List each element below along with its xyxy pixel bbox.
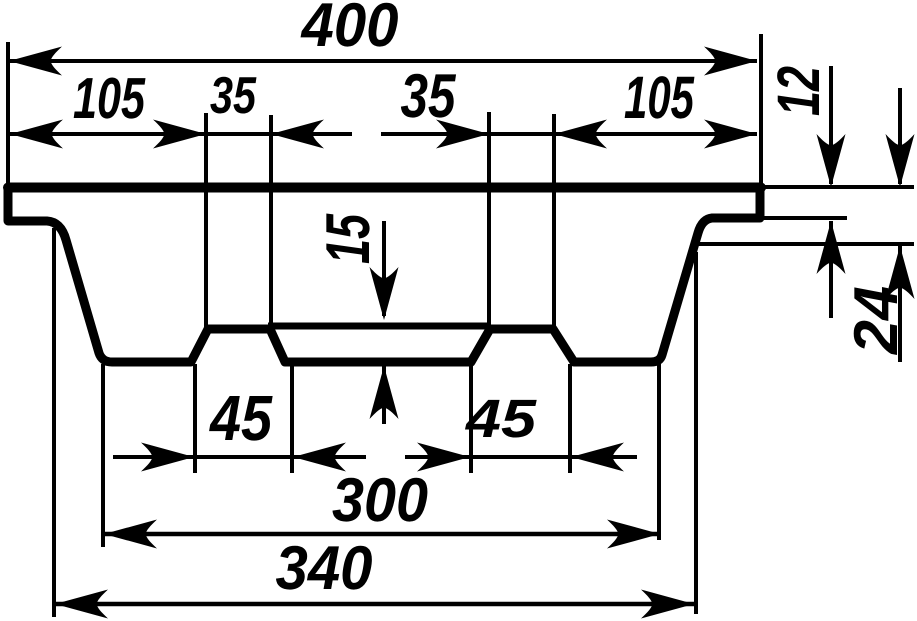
svg-text:24: 24: [842, 286, 911, 355]
extension line 45-right at x=471: [469, 364, 473, 473]
extension line 45-left at x=292: [290, 364, 294, 473]
dimension row 105/35 left: [10, 132, 352, 136]
dimension 12 vertical line: [829, 66, 833, 184]
left extension line: [6, 42, 10, 188]
dimension 15 vertical line: [382, 221, 386, 316]
extension line 340-right at x=696: [694, 252, 698, 614]
dimension 24 vertical line: [898, 88, 902, 184]
svg-text:105: 105: [73, 66, 146, 131]
svg-text:45: 45: [208, 382, 273, 454]
svg-text:105: 105: [624, 64, 695, 131]
extension line 45-left at x=195: [193, 364, 197, 473]
dimension 340 line: [55, 602, 694, 607]
svg-text:340: 340: [276, 534, 373, 603]
dimension 45 right: [405, 455, 637, 459]
24 bottom extension line: [697, 242, 914, 246]
extension line 300-left at x=103: [101, 364, 105, 547]
extension line 35-left at x=206: [204, 113, 208, 330]
svg-text:35: 35: [210, 67, 257, 125]
dimension 300 line: [104, 532, 660, 537]
svg-text:300: 300: [332, 466, 428, 535]
extension line 35-left at x=271: [269, 115, 273, 330]
part outline (cross-section): [8, 188, 760, 362]
svg-text:12: 12: [765, 66, 832, 116]
svg-text:45: 45: [465, 389, 537, 449]
dimension row 35/105 right: [381, 132, 757, 136]
extension line 300-right at x=659: [657, 364, 661, 540]
bump top connector extension line (15 dim): [268, 323, 491, 330]
extension line 35-right at x=489: [487, 112, 491, 331]
extension line 45-right at x=570: [568, 364, 572, 473]
top surface extension line right: [763, 185, 914, 189]
right extension line: [759, 34, 763, 217]
extension line 35-right at x=554: [552, 114, 556, 331]
dimension 45 left: [113, 455, 366, 459]
extension line 340-left at x=54: [52, 228, 56, 617]
svg-text:400: 400: [300, 0, 399, 60]
part top surface line: [8, 183, 761, 193]
svg-text:35: 35: [401, 62, 457, 131]
dimension 400 line: [9, 59, 757, 63]
svg-text:15: 15: [314, 213, 383, 264]
ledge extension line right: [764, 216, 847, 220]
